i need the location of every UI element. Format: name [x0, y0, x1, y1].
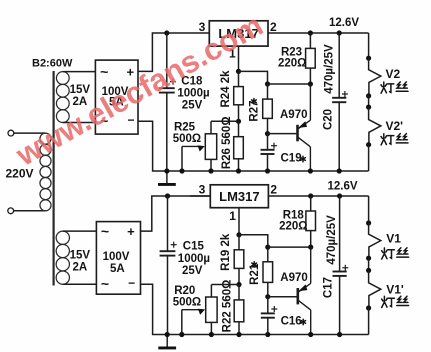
bridge rectifier D1 100V 5A: [95, 60, 138, 134]
transformer primary winding 220V: [40, 133, 51, 211]
wire C17 bottom to ground: [339, 276, 341, 335]
wire U2 pin 1 down: [238, 208, 240, 235]
resistor R21*: [263, 262, 273, 283]
svg-text:+: +: [127, 224, 135, 239]
node E1 junction: [308, 81, 313, 86]
resistor R22 560Ω: [234, 300, 244, 322]
node ADJ1 junction: [236, 69, 241, 74]
ground (top section): [166, 171, 168, 183]
node C15 gnd junction: [165, 332, 170, 337]
wire to R27: [267, 84, 269, 99]
node C16 gnd junction: [265, 332, 270, 337]
svg-text:A970: A970: [280, 109, 308, 121]
wire to R19: [238, 235, 240, 250]
node V1 top terminal: [366, 220, 371, 225]
node R23 top junction: [308, 30, 313, 35]
wire base of Q1: [268, 133, 297, 135]
heater filament V1: [369, 223, 381, 258]
wire to C19: [267, 134, 269, 150]
node R26 gnd junction: [236, 168, 241, 173]
wire R19 bottom: [238, 268, 240, 284]
wire S1 bottom to bridge D1: [63, 122, 96, 124]
potentiometer R20 500Ω: [206, 297, 217, 322]
capacitor C18 1000µ/25V: [159, 88, 175, 92]
wire V1 to V1p: [368, 258, 370, 270]
node C20 top junction: [337, 30, 342, 35]
node base B1 junction: [265, 131, 270, 136]
wire U2 pin 2 output rail 12.6V: [268, 195, 368, 197]
svg-text:2: 2: [270, 183, 277, 197]
wire C15 bottom to ground rail: [167, 256, 169, 335]
capacitor C19*: [261, 150, 275, 154]
node Q2 collector gnd junction: [308, 332, 313, 337]
svg-text:C20: C20: [323, 109, 335, 130]
capacitor C20 470µ/25V: [332, 98, 346, 102]
node base B2 junction: [265, 294, 270, 299]
svg-text:12.6V: 12.6V: [329, 17, 359, 29]
wire AC2 to primary: [14, 210, 46, 212]
wire R23 bottom: [309, 68, 311, 84]
wire C19 bottom to ground: [267, 154, 269, 171]
node ADJ2 junction: [236, 232, 241, 237]
node R19/R22 junction: [236, 282, 241, 287]
wire bridge D1 + output to LM317 U1 pin 3: [138, 33, 209, 71]
svg-text:R23: R23: [281, 46, 302, 58]
transformer core: [52, 71, 54, 286]
wire to R23: [309, 33, 311, 48]
resistor R18 220Ω: [306, 211, 316, 231]
wire R24 bottom: [238, 105, 240, 122]
wire 12.6V rail to V2: [368, 33, 370, 58]
node V2 bottom terminal: [366, 93, 371, 98]
op-amp regulator U2 LM317: [210, 185, 268, 208]
wire C20 bottom to ground: [338, 102, 340, 171]
wire to R18: [310, 196, 312, 211]
svg-text:C19: C19: [281, 153, 302, 165]
resistor R23 220Ω: [306, 48, 316, 68]
wire S2 top to bridge D2: [63, 230, 97, 232]
op-amp regulator U1 LM317: [209, 21, 268, 46]
svg-text:V1: V1: [386, 232, 401, 246]
svg-text:500Ω: 500Ω: [173, 297, 201, 309]
svg-text:470µ/25V: 470µ/25V: [324, 44, 336, 94]
heater filament V1&#39;: [369, 270, 381, 308]
svg-text:B2:60W: B2:60W: [32, 58, 73, 70]
node R24/R26 junction: [236, 119, 241, 124]
svg-text:~: ~: [101, 276, 109, 292]
wire R20 top feed: [211, 284, 239, 286]
wire to C18 top: [166, 33, 168, 88]
node R20 gnd junction: [209, 332, 214, 337]
wire S2 bottom to bridge D2: [63, 283, 97, 285]
wire U1 pin 1 down: [238, 46, 240, 71]
capacitor C15 1000µ/25V: [160, 251, 176, 255]
wire node B1 to emitter node E1: [268, 83, 311, 85]
svg-text:1000µ: 1000µ: [178, 253, 210, 265]
V2p label 灯丝: [381, 134, 408, 145]
node V1 bottom terminal: [366, 256, 371, 261]
wire to R21: [267, 247, 269, 262]
svg-text:R18: R18: [283, 209, 305, 221]
wire to R22: [238, 285, 240, 300]
svg-text:25V: 25V: [182, 100, 203, 112]
wire to R24: [238, 71, 240, 86]
star marker (C16): [301, 319, 306, 324]
svg-text:25V: 25V: [182, 265, 203, 277]
wire to R25 body: [210, 121, 212, 134]
svg-text:100V: 100V: [103, 251, 130, 263]
transformer secondary winding S1 15V 2A: [56, 72, 69, 123]
node V1p bottom terminal: [366, 305, 371, 310]
svg-text:220Ω: 220Ω: [279, 221, 307, 233]
svg-text:R26 560Ω: R26 560Ω: [221, 116, 233, 169]
transistor Q2 A970 (PNP): [298, 247, 311, 334]
resistor R26 560Ω: [234, 137, 244, 159]
wire to R26: [238, 121, 240, 136]
svg-text:V2': V2': [386, 119, 404, 133]
terminal node AC1: [8, 130, 14, 136]
wire V1p to ground rail: [368, 308, 370, 335]
svg-text:R20: R20: [174, 285, 195, 297]
node V1p top terminal: [366, 268, 371, 273]
wire R25 wiper to ground: [181, 146, 183, 171]
node C17 gnd junction: [337, 332, 342, 337]
wire into U2 pin 3: [190, 195, 210, 197]
node C17 top junction: [337, 193, 342, 198]
svg-text:5A: 5A: [110, 263, 125, 275]
wire to C20: [338, 33, 340, 97]
svg-text:−: −: [128, 276, 135, 290]
terminal node AC2: [8, 208, 14, 214]
star marker (C19): [301, 156, 306, 161]
wire R26 bottom: [238, 159, 240, 171]
svg-text:1: 1: [229, 209, 236, 223]
wire U1 pin 2 output rail 12.6V: [268, 32, 369, 34]
svg-text:V2: V2: [386, 67, 401, 81]
node V2p top terminal: [366, 105, 371, 110]
node VIN1 junction: [164, 30, 169, 35]
resistor R19 2k: [234, 250, 244, 269]
svg-text:470µ/25V: 470µ/25V: [326, 215, 338, 265]
wire R25 top feed: [211, 120, 239, 122]
node R20 wiper gnd junction: [179, 332, 184, 337]
wire AC1 to primary: [14, 132, 46, 134]
star marker (R21): [252, 262, 257, 267]
node C18 gnd junction: [164, 168, 169, 173]
node B1 junction: [265, 81, 270, 86]
wire bridge D2 + output to LM317 U2 pin 3: [141, 196, 211, 231]
node Q1 collector gnd junction: [308, 168, 313, 173]
capacitor C17 470µ/25V: [333, 272, 347, 276]
wire R25 bottom to ground: [210, 159, 212, 171]
V1p label 灯丝: [382, 296, 409, 307]
wire 12.6V rail to V1: [368, 196, 370, 223]
svg-text:C17: C17: [323, 277, 335, 298]
svg-text:1000µ: 1000µ: [177, 88, 209, 100]
wire V2p to ground rail: [368, 145, 370, 171]
svg-text:15V: 15V: [70, 84, 91, 96]
svg-text:3: 3: [199, 20, 206, 34]
svg-text:A970: A970: [280, 272, 308, 284]
wire R20 wiper to ground: [181, 310, 183, 335]
node E2 junction: [308, 245, 313, 250]
svg-text:2A: 2A: [72, 262, 87, 274]
svg-text:R22 560Ω: R22 560Ω: [221, 280, 233, 333]
bridge rectifier D2 100V 5A: [96, 222, 140, 295]
wire to C16: [267, 297, 269, 313]
wire bridge D1 - output to ground rail (top): [138, 121, 369, 171]
node R25 gnd junction: [208, 168, 213, 173]
resistor R27*: [263, 99, 273, 118]
V1 label 灯丝: [382, 248, 409, 259]
svg-text:~: ~: [100, 64, 108, 80]
svg-text:R25: R25: [174, 122, 196, 134]
node C19 gnd junction: [265, 168, 270, 173]
svg-text:C16: C16: [281, 316, 302, 328]
svg-text:R24 2k: R24 2k: [220, 70, 232, 108]
ground (bottom section): [166, 335, 168, 347]
wire C18 bottom to ground rail: [166, 93, 168, 171]
V2 label 灯丝: [381, 82, 408, 93]
wire base of Q2: [268, 296, 297, 298]
wire bridge D2 - output to ground rail (bottom): [141, 284, 369, 334]
transformer secondary winding S2 15V 2A: [56, 231, 69, 284]
svg-text:15V: 15V: [70, 250, 91, 262]
heater filament V2&#39;: [369, 107, 381, 145]
node R18 top junction: [308, 193, 313, 198]
potentiometer R25 500Ω: [205, 134, 216, 160]
svg-text:~: ~: [101, 223, 109, 239]
node V2 top terminal: [366, 56, 371, 61]
node C20 gnd junction: [337, 168, 342, 173]
transistor Q1 A970 (PNP): [298, 84, 311, 171]
wire R27 bottom: [267, 118, 269, 133]
wire C16 bottom to ground: [267, 318, 269, 335]
svg-text:C15: C15: [183, 241, 205, 253]
svg-text:R19 2k: R19 2k: [220, 233, 232, 271]
node B2 junction: [265, 245, 270, 250]
wire node B2 to emitter node E2: [268, 246, 311, 248]
wire S1 top to bridge D1: [63, 71, 96, 73]
svg-text:LM317: LM317: [219, 189, 259, 204]
svg-text:3: 3: [199, 183, 206, 197]
wire R20 bottom to ground: [210, 322, 212, 334]
wire to C17: [339, 196, 341, 271]
heater filament V2: [369, 58, 381, 96]
svg-text:V1': V1': [386, 283, 404, 297]
wire R18 bottom: [310, 231, 312, 248]
svg-text:220Ω: 220Ω: [278, 58, 306, 70]
wire ADJ1 to node B1: [239, 71, 268, 84]
star marker (R27): [252, 99, 257, 104]
wire to C15 top: [167, 196, 169, 251]
wire ADJ2 to node B2: [239, 235, 268, 247]
svg-text:12.6V: 12.6V: [328, 181, 358, 193]
capacitor C16*: [261, 313, 275, 317]
node R25 wiper gnd junction: [179, 168, 184, 173]
node VIN2 junction: [165, 193, 170, 198]
wire V2 to V2p: [368, 96, 370, 107]
svg-text:500Ω: 500Ω: [173, 133, 201, 145]
node R22 gnd junction: [236, 332, 241, 337]
wire R21 bottom: [267, 282, 269, 296]
svg-text:2: 2: [270, 20, 277, 34]
node V2p bottom terminal: [366, 142, 371, 147]
wire to R20 body: [210, 285, 212, 298]
wire R22 bottom: [238, 322, 240, 335]
resistor R24 2k: [234, 87, 244, 105]
